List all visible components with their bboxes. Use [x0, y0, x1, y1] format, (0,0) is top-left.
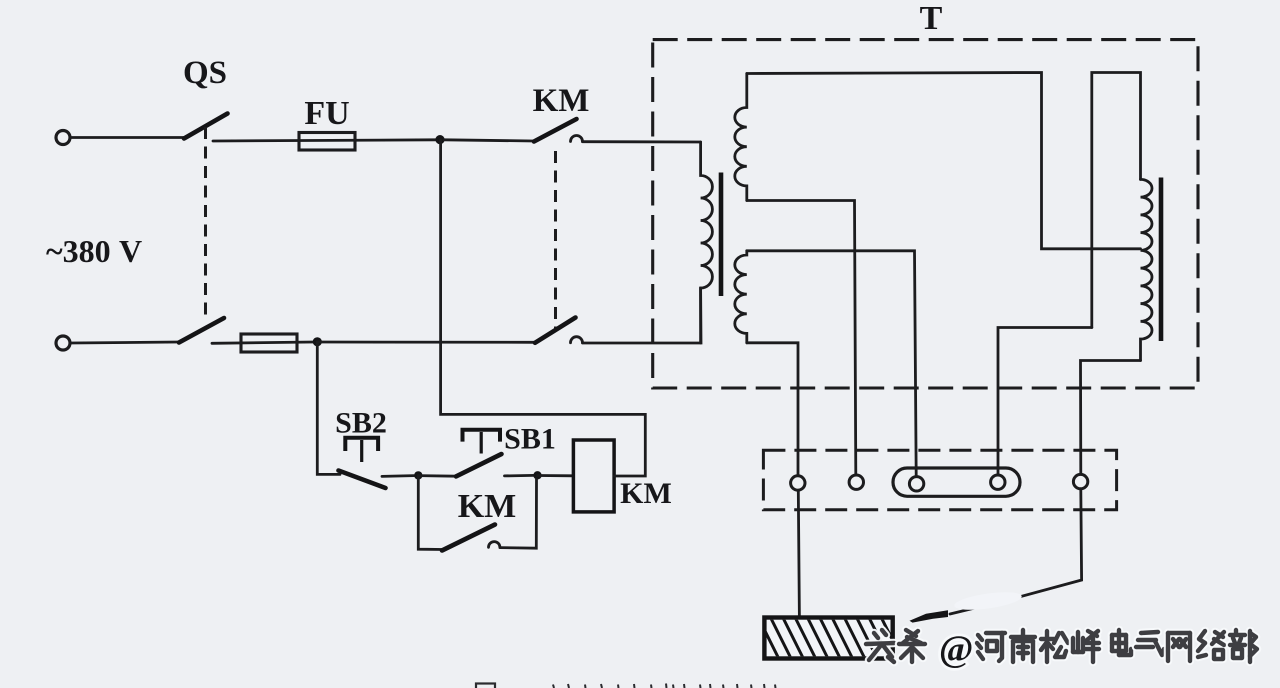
winding W3 lower secondary of transformer 1	[735, 251, 747, 343]
wire terminal 1 to workpiece	[798, 490, 799, 618]
wire coil KM back to node A	[441, 140, 646, 476]
supply terminal L2	[56, 336, 70, 350]
pushbutton SB2 stem	[360, 440, 363, 462]
caption fragment (cut off at page bottom)	[476, 684, 776, 688]
terminal 4	[991, 475, 1005, 489]
supply terminal L1	[56, 131, 70, 145]
core of transformer 1	[719, 173, 724, 297]
svg-text:V: V	[119, 233, 142, 269]
watermark 河	[977, 633, 1005, 661]
wire SB1 to node D	[505, 474, 534, 477]
contactor KM auxiliary contact blade	[442, 525, 495, 551]
watermark 气	[1136, 632, 1164, 655]
terminal 5	[1073, 474, 1087, 488]
watermark 峰	[1073, 631, 1099, 662]
watermark 松	[1041, 631, 1068, 662]
wire QS2 through fuse FU2 to node B	[212, 342, 314, 343]
wire transformer 2 top link (n-shape)	[1092, 73, 1141, 328]
wire node A to KM pole 1	[444, 140, 534, 141]
wire link to terminal 4	[998, 328, 1092, 476]
svg-text:T: T	[920, 0, 943, 37]
svg-text:SB1: SB1	[504, 423, 556, 456]
wire W2 bottom to terminal 2	[747, 201, 856, 476]
svg-text:SB2: SB2	[335, 407, 387, 440]
terminal 3	[909, 477, 923, 491]
contactor KM pole 1 blade	[534, 119, 577, 142]
switch QS pole 1 blade	[184, 114, 228, 139]
switch QS linkage (dashed)	[204, 127, 207, 315]
fuse FU1	[299, 133, 355, 151]
watermark 条	[899, 630, 925, 662]
wire KM1 to transformer primary top	[583, 140, 701, 143]
svg-text:FU: FU	[304, 95, 349, 132]
terminal 1	[791, 476, 805, 490]
pushbutton SB1 cap	[463, 430, 501, 442]
node D junction dot	[533, 471, 541, 479]
winding W1 primary of transformer 1	[701, 142, 713, 343]
node A junction dot	[435, 135, 444, 144]
watermark 南	[1011, 630, 1035, 662]
core of transformer 2	[1159, 178, 1164, 342]
watermark 网	[1168, 633, 1190, 661]
eraser smudge	[953, 589, 1022, 613]
wire node C down to KM auxiliary contact	[418, 476, 444, 550]
contactor KM pole 2 blade	[535, 318, 576, 343]
wire KM auxiliary to node D	[500, 479, 537, 548]
winding W2 upper secondary of transformer 1	[735, 74, 747, 201]
winding W4 secondary of transformer 2 (tapped)	[1141, 179, 1153, 360]
svg-text:QS: QS	[183, 55, 227, 91]
watermark 络	[1198, 631, 1224, 659]
watermark 头	[866, 630, 894, 662]
pushbutton SB1 stem	[480, 432, 483, 454]
contactor KM linkage (dashed)	[554, 151, 557, 330]
contact KM pole 2 fixed contact	[571, 337, 583, 343]
wire KM2 to transformer primary bottom	[583, 288, 702, 343]
wire L1 to QS pole 1	[71, 136, 185, 139]
shorting link (stadium) around terminals 3 and 4	[893, 468, 1020, 496]
coil KM (contactor coil)	[573, 440, 614, 512]
contact KM auxiliary fixed contact	[489, 542, 500, 548]
wire node C to SB1	[418, 474, 456, 477]
transformer T enclosure (dashed box)	[653, 40, 1198, 388]
terminal board enclosure (dashed box)	[763, 450, 1116, 509]
node B junction dot	[313, 337, 322, 346]
svg-text:~380: ~380	[46, 233, 111, 269]
wire node B down to SB2	[317, 342, 340, 474]
node C junction dot	[414, 471, 422, 479]
svg-text:KM: KM	[533, 83, 590, 119]
wire W3 bottom to terminal 1	[747, 343, 798, 476]
svg-text:@: @	[939, 629, 973, 670]
svg-text:KM: KM	[620, 477, 672, 510]
wire QS1 to fuse FU1 and on to node A	[213, 140, 436, 141]
pushbutton SB2 blade (NC)	[339, 471, 386, 489]
wire W2 top to transformer 2 tap	[747, 73, 1141, 249]
wire L2 to QS pole 2	[71, 342, 180, 343]
svg-text:KM: KM	[458, 488, 517, 525]
watermark 电	[1112, 630, 1131, 655]
wire node D to coil KM	[538, 474, 574, 477]
contact KM pole 1 fixed contact	[571, 136, 583, 142]
workpiece (hatched block)	[757, 615, 901, 659]
fuse FU2	[241, 334, 297, 352]
switch QS pole 2 blade	[179, 318, 224, 343]
electrode tip	[910, 610, 949, 622]
wire W3 top to terminal 3	[747, 251, 916, 477]
wire SB2 to node C	[382, 474, 414, 478]
wire terminal 5 to electrode holder	[950, 489, 1082, 614]
wire W4 bottom to terminal 5	[1081, 361, 1141, 476]
wire node B to KM pole 2	[317, 341, 535, 344]
pushbutton SB1 blade (NO)	[456, 454, 502, 476]
watermark 部	[1230, 630, 1257, 662]
pushbutton SB2 cap	[345, 438, 378, 451]
terminal 2	[849, 475, 863, 489]
